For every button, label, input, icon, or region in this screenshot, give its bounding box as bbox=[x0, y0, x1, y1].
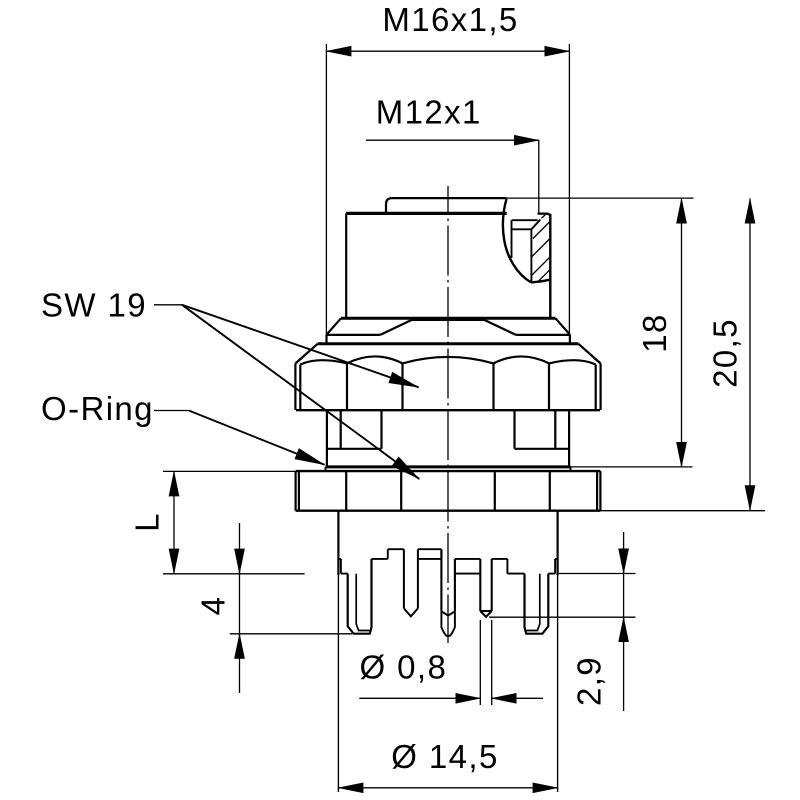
svg-text:M16x1,5: M16x1,5 bbox=[382, 1, 518, 38]
pin 1 (left socket contact) bbox=[348, 559, 372, 634]
thread cap M12 (rounded top stub) bbox=[386, 198, 507, 213]
insert step face lines bbox=[341, 573, 555, 575]
dimension 4 bbox=[239, 523, 241, 693]
keyway inner lines bbox=[512, 220, 541, 283]
dimension 18 bbox=[681, 199, 683, 468]
flange plate with lower hex bbox=[296, 470, 601, 472]
lower body shell bbox=[338, 511, 557, 575]
centerline (vertical dash-dot axis) bbox=[447, 186, 449, 643]
dimension diameter 0,8 bbox=[359, 697, 480, 699]
svg-text:20,5: 20,5 bbox=[707, 318, 744, 388]
pin 5 (right socket contact) bbox=[525, 574, 549, 634]
svg-text:Ø 14,5: Ø 14,5 bbox=[391, 738, 498, 775]
extension lines M16 bbox=[326, 44, 569, 335]
dimension M16x1,5 bbox=[326, 50, 569, 52]
dimension 20,5 bbox=[749, 199, 751, 511]
extension lines L bbox=[163, 471, 305, 573]
pin 4 (solder pin, diameter 0.8) bbox=[480, 559, 491, 617]
leader M12x1 bbox=[366, 139, 539, 141]
dimension diameter 14,5 bbox=[338, 787, 557, 789]
body edge stubs bbox=[338, 559, 557, 574]
pin 2 bbox=[404, 549, 418, 616]
svg-text:SW 19: SW 19 bbox=[41, 287, 147, 324]
svg-text:O-Ring: O-Ring bbox=[41, 390, 154, 427]
cylinder body bbox=[345, 213, 347, 318]
svg-text:2,9: 2,9 bbox=[571, 656, 608, 706]
neck below hex nut bbox=[341, 410, 556, 449]
svg-text:Ø 0,8: Ø 0,8 bbox=[360, 649, 448, 686]
extension line 4 bbox=[230, 633, 352, 635]
hex nut SW19 (big hex) bbox=[318, 342, 579, 345]
pin 3 (center contact with needle) bbox=[441, 549, 455, 611]
O-ring bbox=[326, 465, 571, 468]
svg-text:L: L bbox=[129, 512, 166, 532]
dimension L bbox=[173, 471, 175, 573]
keyway bottom edge bbox=[531, 280, 550, 283]
leader O-Ring bbox=[154, 410, 189, 412]
svg-text:4: 4 bbox=[194, 596, 231, 616]
upper hex (top hex section) bbox=[341, 317, 556, 320]
leader SW 19 bbox=[154, 304, 182, 306]
svg-text:M12x1: M12x1 bbox=[376, 94, 482, 131]
extension lines 18 bbox=[507, 198, 694, 467]
keyway slot (arc boundary) bbox=[503, 199, 531, 283]
keyway top right edge bbox=[538, 214, 551, 218]
extension line 20,5 bbox=[600, 510, 765, 512]
svg-text:18: 18 bbox=[636, 313, 673, 353]
dimension 2,9 bbox=[623, 532, 625, 711]
keyway hatch bbox=[532, 214, 551, 282]
